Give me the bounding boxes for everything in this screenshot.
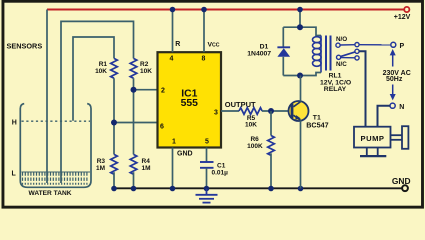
junction relay rail — [297, 7, 303, 13]
svg-text:3: 3 — [214, 110, 218, 117]
svg-text:8: 8 — [202, 56, 206, 63]
resistor R4 — [130, 154, 137, 174]
svg-text:10K: 10K — [95, 68, 107, 75]
terminal N — [390, 103, 395, 108]
230V AC arrow up — [392, 52, 394, 67]
svg-text:1N4007: 1N4007 — [247, 50, 271, 57]
wire pole to pump — [359, 51, 365, 127]
sensor probe 2 wire — [61, 21, 134, 183]
junction pin4 rail — [170, 7, 176, 13]
wire N/C — [341, 57, 355, 59]
junction emitter rail — [298, 186, 304, 192]
wire R2 to R4 — [133, 78, 135, 154]
resistor R6 (vertical) — [270, 111, 272, 136]
terminal +12V — [404, 7, 409, 12]
capacitor C1 — [200, 161, 214, 163]
junction C1 rail — [204, 186, 210, 192]
svg-text:PUMP: PUMP — [361, 134, 385, 143]
relay bottom bar — [283, 73, 321, 76]
resistor R2 — [130, 58, 137, 78]
svg-text:1: 1 — [172, 139, 176, 146]
wire N/O to pole circle — [340, 44, 355, 46]
svg-text:N/C: N/C — [336, 61, 347, 68]
svg-text:N/O: N/O — [336, 36, 347, 43]
junction pin8 rail — [201, 7, 207, 13]
wire pin 5 to C1 — [206, 148, 208, 162]
230V AC arrow down — [392, 85, 394, 97]
wire R1 to R3 — [113, 78, 115, 154]
wire pin 8 to +12V — [203, 10, 205, 53]
sensor probe 1 wire (+12V common) — [46, 10, 48, 184]
svg-text:100K: 100K — [247, 143, 263, 150]
terminal GND — [402, 185, 408, 191]
wire R5 to base — [262, 110, 291, 112]
junction relay top — [297, 24, 303, 30]
relay pole contact — [355, 49, 359, 53]
junction R3 rail — [111, 186, 117, 192]
sensor probe 3 wire — [73, 37, 114, 121]
svg-text:1M: 1M — [96, 165, 105, 172]
ground rail — [114, 187, 402, 189]
wire pin 4 to +12V — [172, 10, 174, 53]
water surface hatching — [23, 172, 87, 185]
svg-text:WATER TANK: WATER TANK — [29, 190, 72, 197]
svg-text:C1: C1 — [217, 163, 226, 170]
svg-text:5: 5 — [205, 139, 209, 146]
junction at R2 / pin2 — [131, 87, 137, 93]
svg-text:RELAY: RELAY — [324, 86, 347, 93]
pump legs and base — [366, 148, 368, 156]
relay contact N/O — [336, 43, 340, 47]
relay contact top right — [355, 43, 359, 47]
junction relay bottom — [297, 73, 303, 79]
svg-text:10K: 10K — [245, 122, 257, 129]
wire pin 3 output — [221, 110, 239, 112]
resistor R1 — [111, 58, 118, 78]
relay core lines — [325, 36, 327, 71]
wire pin 2 — [134, 89, 159, 91]
wire emitter to ground rail — [300, 120, 302, 188]
wire R3 to ground rail — [113, 172, 115, 188]
svg-text:P: P — [400, 43, 405, 50]
pump flange — [402, 126, 408, 149]
junction R4 rail — [131, 186, 137, 192]
relay coil RL1 — [320, 36, 322, 73]
diode D1 — [282, 27, 284, 47]
op IC1 555 box — [158, 52, 222, 147]
wire to terminal P — [359, 44, 391, 46]
wire pin 6 — [114, 122, 158, 124]
svg-text:N: N — [399, 104, 404, 111]
svg-text:2: 2 — [161, 88, 165, 95]
svg-text:VCC: VCC — [208, 41, 220, 48]
svg-text:10K: 10K — [140, 68, 152, 75]
svg-text:D1: D1 — [260, 43, 269, 50]
relay armature — [340, 52, 355, 57]
svg-text:SENSORS: SENSORS — [7, 41, 43, 50]
pump coupling stubs — [391, 134, 403, 136]
ground symbol — [196, 189, 218, 203]
svg-text:L: L — [12, 170, 17, 177]
svg-text:GND: GND — [392, 176, 411, 186]
svg-text:R6: R6 — [250, 136, 259, 143]
junction at R1 / pin6 — [111, 120, 117, 126]
wire N to pump — [378, 106, 391, 127]
junction R6 rail — [268, 186, 274, 192]
wire relay to collector — [300, 76, 302, 102]
junction R6 — [268, 108, 274, 114]
relay contact N/C pivot — [337, 55, 341, 59]
wire pin 1 to ground — [172, 148, 174, 189]
svg-text:+12V: +12V — [394, 14, 411, 21]
relay top bar — [283, 27, 321, 35]
resistor R3 — [111, 154, 118, 174]
pump motor — [354, 127, 391, 148]
svg-text:GND: GND — [177, 150, 193, 157]
svg-text:RL1: RL1 — [329, 72, 342, 79]
svg-text:6: 6 — [160, 124, 164, 131]
svg-text:1M: 1M — [142, 165, 151, 172]
svg-text:0.01µ: 0.01µ — [212, 170, 229, 177]
svg-text:50Hz: 50Hz — [386, 76, 403, 83]
junction pin1 rail — [170, 186, 176, 192]
svg-text:555: 555 — [181, 98, 199, 109]
+12V rail (red) — [47, 9, 404, 11]
tank level H dashed line — [22, 120, 91, 122]
svg-text:R: R — [175, 41, 180, 48]
terminal P — [391, 42, 396, 47]
relay contact N/C — [355, 56, 359, 60]
transistor T1 — [289, 101, 309, 121]
wire R4 to ground rail — [133, 172, 135, 188]
resistor R5 (horizontal) — [239, 108, 262, 115]
svg-text:H: H — [12, 119, 17, 126]
svg-text:BC547: BC547 — [306, 120, 328, 129]
wire +12V to relay — [299, 10, 301, 28]
water tank — [20, 104, 91, 188]
svg-text:4: 4 — [170, 56, 174, 63]
